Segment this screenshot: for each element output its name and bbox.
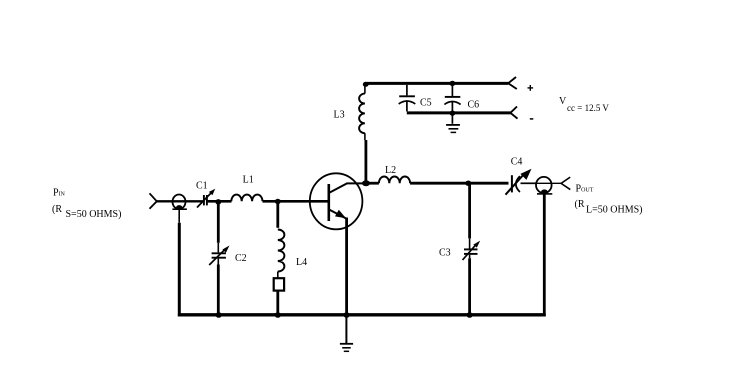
svg-text:L1: L1: [243, 175, 254, 186]
svg-text:C4: C4: [511, 156, 523, 167]
svg-text:C5: C5: [420, 98, 432, 109]
svg-text:cc = 12.5 V: cc = 12.5 V: [567, 103, 609, 113]
svg-text:PIN: PIN: [53, 187, 66, 198]
svg-text:S=50 OHMS): S=50 OHMS): [66, 209, 122, 220]
svg-text:V: V: [559, 96, 567, 107]
svg-text:(R: (R: [52, 204, 62, 215]
svg-text:L3: L3: [334, 110, 345, 121]
svg-text:L4: L4: [296, 257, 307, 268]
svg-text:C2: C2: [235, 253, 247, 264]
svg-text:L=50 OHMS): L=50 OHMS): [586, 205, 642, 216]
svg-text:C3: C3: [439, 248, 451, 259]
svg-text:POUT: POUT: [576, 183, 594, 194]
svg-text:C1: C1: [196, 181, 208, 192]
svg-text:L2: L2: [385, 165, 396, 176]
svg-text:C6: C6: [468, 100, 480, 111]
svg-text:(R: (R: [575, 199, 585, 210]
